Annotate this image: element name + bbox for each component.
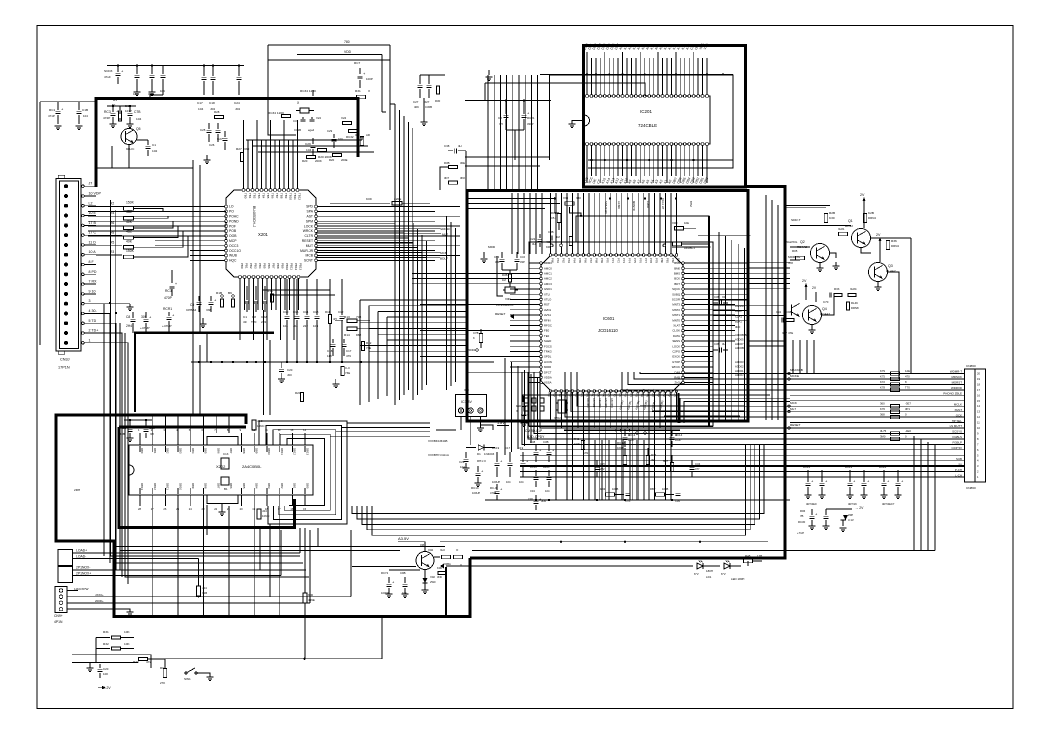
svg-text:R30: R30 xyxy=(435,99,441,103)
capacitor C1B 104 corner2 xyxy=(76,102,89,130)
resistor R2 150K xyxy=(96,201,150,211)
svg-text:A3.5V: A3.5V xyxy=(398,536,409,541)
svg-text:DB2: DB2 xyxy=(280,483,284,489)
svg-text:DB8: DB8 xyxy=(242,448,246,454)
svg-text:JCD16110: JCD16110 xyxy=(598,328,618,333)
svg-text:MCP: MCP xyxy=(229,239,237,243)
wire slant labels top IC601 xyxy=(604,198,693,214)
wire X202 bottom pin 8 xyxy=(227,483,233,511)
svg-text:2W0: 2W0 xyxy=(430,580,436,584)
svg-text:104: 104 xyxy=(160,89,165,93)
wire X201 top pin 12 xyxy=(292,140,298,200)
wire IC601 right pin 18 xyxy=(672,350,713,354)
wire bottom right horizontals inside rect xyxy=(640,406,745,416)
svg-text:104: 104 xyxy=(83,114,88,118)
svg-text:16: 16 xyxy=(977,393,980,397)
connector CN860 pin 4 xyxy=(790,386,980,392)
wire IC601 bottom pin 6 xyxy=(574,389,580,428)
svg-text:FE0: FE0 xyxy=(544,329,550,333)
power arrow 2V b xyxy=(876,233,882,262)
wire rows from QFP bottom to right xyxy=(680,398,790,423)
svg-text:DB6: DB6 xyxy=(216,448,220,454)
wire IC201 pin 31 bottom xyxy=(592,143,598,185)
svg-text:4 30-: 4 30- xyxy=(89,309,98,313)
wire X201 bottom pin 4 xyxy=(252,263,258,340)
svg-text:AVD1: AVD1 xyxy=(544,308,552,312)
preset C6B xyxy=(228,291,235,307)
svg-text:18: 18 xyxy=(977,382,980,386)
wire IC601 right pin 3 xyxy=(674,272,748,276)
svg-text:X0D: X0D xyxy=(505,297,511,301)
capacitor C17 479 xyxy=(342,339,352,358)
wire bottom mid rails xyxy=(440,499,790,543)
svg-text:4R7/4EC: 4R7/4EC xyxy=(806,502,817,506)
svg-text:TB2: TB2 xyxy=(253,193,257,199)
wire IC601 right pin 17 xyxy=(672,344,713,348)
wire IC201 pin 22 top xyxy=(676,43,682,97)
wire IC201 pin 43 bottom xyxy=(645,143,651,185)
wire X202 verticals up xyxy=(153,415,229,433)
svg-text:P77: P77 xyxy=(644,258,648,263)
capacitor C17 top xyxy=(197,66,207,111)
svg-text:LOCK: LOCK xyxy=(672,344,680,348)
capacitor C1 C8 C22 row xyxy=(243,286,268,324)
wire X201 top pin 9 xyxy=(278,140,284,199)
svg-text:2A4C0B0L: 2A4C0B0L xyxy=(242,464,262,469)
wire IC601 top pin 16 xyxy=(631,193,636,263)
op IC20 regulator IC1.8V xyxy=(456,388,487,417)
ground X202 center xyxy=(219,504,226,516)
svg-text:3E: 3E xyxy=(651,458,654,462)
capacitor RC72 1000P xyxy=(381,571,395,598)
svg-text:28: 28 xyxy=(138,507,141,511)
capacitor C29 104 reg xyxy=(459,452,470,472)
wire Q5 collector down xyxy=(112,140,148,168)
svg-text:RL49: RL49 xyxy=(851,301,858,305)
svg-text:7B: 7B xyxy=(800,514,804,518)
wire bottom long horizontals xyxy=(150,556,309,577)
svg-text:DB2: DB2 xyxy=(166,448,170,454)
wire IC601 bottom pin 21 xyxy=(656,389,662,428)
svg-text:DB1: DB1 xyxy=(153,448,157,454)
wire IC601 right pin 16 xyxy=(672,339,735,343)
svg-text:C18: C18 xyxy=(327,349,333,353)
svg-text:C25: C25 xyxy=(149,426,155,430)
wire IC601 bottom pin 16 xyxy=(629,389,635,500)
wire IC201 pin 10 top xyxy=(623,45,629,98)
svg-text:2H4: 2H4 xyxy=(126,324,132,328)
svg-text:101P: 101P xyxy=(125,109,132,113)
capacitor column C10 C16 C14 C18 xyxy=(283,279,320,362)
svg-text:TB1: TB1 xyxy=(248,193,252,199)
capacitor RC13 100UP xyxy=(471,466,484,495)
wire bundle into QFP left xyxy=(360,300,467,405)
svg-text:C27: C27 xyxy=(413,100,419,104)
resistor K00 499E mid2 xyxy=(303,528,315,659)
svg-text:R31: R31 xyxy=(355,89,361,93)
wire X202 bottom pin 6 xyxy=(202,483,208,511)
capacitor RC12 103P xyxy=(623,430,636,447)
svg-text:XTLO: XTLO xyxy=(544,298,552,302)
svg-text:J04: J04 xyxy=(293,324,298,328)
wire X201 bottom pin 8 xyxy=(270,263,276,310)
wire IC601 top pin 7 xyxy=(582,193,587,263)
wire IC201 pin 53 bottom xyxy=(689,143,695,185)
resistor R28 xyxy=(214,110,224,119)
resistor R20 200E right xyxy=(329,154,348,163)
wire X201 left pin 7 xyxy=(88,234,237,238)
connector CN301 pin 17 xyxy=(64,338,96,345)
svg-text:RST: RST xyxy=(544,303,550,307)
svg-text:L2: L2 xyxy=(89,201,93,205)
wire IC201 pin 33 bottom xyxy=(601,143,607,185)
wire IC601 top pin 12 xyxy=(609,193,614,263)
svg-text:TB10: TB10 xyxy=(289,193,293,200)
wire X202 bottom pin 5 xyxy=(189,483,195,511)
transistor Q4 RC4A2 xyxy=(803,306,831,325)
svg-text:RC9: RC9 xyxy=(120,426,127,430)
svg-text:19: 19 xyxy=(977,377,980,381)
svg-text:8 PD: 8 PD xyxy=(89,270,97,274)
wire IC201 pin 4 top xyxy=(596,43,602,98)
svg-text:R27: R27 xyxy=(236,147,242,151)
svg-text:eged: eged xyxy=(308,128,315,132)
ground CN301 row xyxy=(96,304,134,311)
svg-text:P76: P76 xyxy=(638,258,642,263)
svg-text:PB3: PB3 xyxy=(254,263,258,269)
svg-text:DB0: DB0 xyxy=(140,448,144,454)
svg-text:Q2: Q2 xyxy=(800,240,805,244)
svg-text:FGBLS: FGBLS xyxy=(952,435,962,439)
wire IC201 pin 28 top xyxy=(703,42,710,97)
svg-text:C10: C10 xyxy=(283,310,289,314)
wire IC601 bottom pin 12 xyxy=(607,389,613,428)
resistor R3 150K xyxy=(96,249,150,259)
svg-text:CN860: CN860 xyxy=(966,486,976,490)
svg-text:DB4: DB4 xyxy=(191,448,195,454)
resistor R8 4B2 xyxy=(96,230,150,240)
resistor R30 top right xyxy=(824,211,876,223)
wire X202 bottom pin 13 xyxy=(290,483,296,511)
resistor R30 C52 xyxy=(551,211,561,223)
wire IC601 bottom pin 13 xyxy=(612,388,618,500)
connector CN4 4PIN xyxy=(54,587,88,625)
svg-text:A3D07: A3D07 xyxy=(735,342,744,346)
svg-text:3KK: 3KK xyxy=(460,176,465,180)
svg-text:SCNT: SCNT xyxy=(304,259,313,263)
svg-text:DB9: DB9 xyxy=(255,448,259,454)
wire loops to rows verticals xyxy=(260,524,270,597)
op IC601 DSP JCD16110 body xyxy=(541,255,683,391)
svg-text:MDR-3G: MDR-3G xyxy=(788,255,801,259)
resistor R27 top xyxy=(236,147,249,162)
resistor R49E vertical top xyxy=(569,237,572,246)
svg-text:BU4053CH-J: BU4053CH-J xyxy=(252,206,256,227)
label 2RH xyxy=(74,488,80,492)
wire bottom bus extended left xyxy=(115,502,935,551)
wire IC601 bottom pin 11 xyxy=(601,388,607,500)
svg-text:49K: 49K xyxy=(126,239,133,243)
svg-text:PHONO ZBLE: PHONO ZBLE xyxy=(943,392,962,396)
wire X201 bottom pin 9 xyxy=(275,263,281,310)
connector CN860 pin 18 xyxy=(520,462,979,468)
svg-text:CPBB4: CPBB4 xyxy=(186,308,197,312)
op IC201 ROM 724CBLE body xyxy=(584,96,710,144)
wire IC601 top pin 14 xyxy=(620,193,625,263)
section outline board A (tuner top-left) xyxy=(96,99,358,188)
svg-text:K: K xyxy=(473,336,475,340)
svg-text:A3C0B0: A3C0B0 xyxy=(586,398,590,408)
capacitor RCR1 +47UP xyxy=(162,307,175,333)
wire IC201 pin 42 bottom xyxy=(641,143,647,185)
wire IC201 pin 50 bottom xyxy=(676,143,682,185)
resistor R1 50 and RC1 101P xyxy=(112,98,132,121)
svg-text:BZD-QPDY: BZD-QPDY xyxy=(527,435,545,439)
wire IC601 top pin 5 xyxy=(571,193,576,263)
svg-text:K72: K72 xyxy=(880,380,885,384)
svg-text:882: 882 xyxy=(356,333,361,337)
wire IC601 bottom pin 7 xyxy=(579,389,585,500)
wire IC601 right pin 12 xyxy=(672,318,735,322)
svg-text:C91: C91 xyxy=(776,310,782,314)
svg-text:368: 368 xyxy=(880,413,885,417)
svg-text:C22: C22 xyxy=(530,237,536,241)
svg-text:3N0: 3N0 xyxy=(437,575,442,579)
svg-text:73E: 73E xyxy=(345,371,350,375)
resistor R44 3E xyxy=(646,448,656,465)
svg-text:50: 50 xyxy=(112,103,116,107)
wire IC201 pin 21 top xyxy=(672,43,678,97)
wire X202 inner pin ticks xyxy=(140,446,305,494)
wire QFP right rows crossing x748 to x787 xyxy=(713,263,787,321)
svg-text:C26: C26 xyxy=(209,143,215,147)
svg-text:3H: 3H xyxy=(722,342,725,346)
svg-text:J24: J24 xyxy=(262,509,267,513)
svg-text:3B7 47E: 3B7 47E xyxy=(782,331,793,335)
wire X202 bottom pin 2 xyxy=(151,483,157,511)
wire IC601 left pin 1 xyxy=(529,261,552,265)
wire X201 left pin 11 xyxy=(190,254,238,258)
wire IC201 pin 11 top xyxy=(627,45,633,98)
wire X201 bottom pin 10 xyxy=(279,263,285,340)
svg-text:P69: P69 xyxy=(600,258,604,263)
svg-text:DB10: DB10 xyxy=(178,483,182,490)
capacitor C38 right of IC601 xyxy=(713,295,728,306)
svg-text:RESET: RESET xyxy=(495,312,506,316)
svg-text:4R7/4EC7: 4R7/4EC7 xyxy=(882,502,895,506)
wire X202 bottom drops xyxy=(153,506,280,617)
svg-text:10K: 10K xyxy=(124,642,130,646)
wire X202 bottom pin 10 xyxy=(252,483,258,511)
svg-text:R33: R33 xyxy=(834,287,840,291)
wire X202 top pin 12 xyxy=(278,428,284,455)
svg-text:CN860: CN860 xyxy=(966,364,976,368)
connector CN860 pin 20 xyxy=(790,473,979,479)
wire IC201 pin 1 top xyxy=(583,43,589,98)
wire X201 top pin 5 xyxy=(260,140,266,199)
resistor R20 200K lower xyxy=(302,155,322,163)
wire IC201 pin 40 bottom xyxy=(632,143,638,185)
svg-text:HP SEL: HP SEL xyxy=(952,419,963,423)
svg-text:PB10: PB10 xyxy=(285,263,289,270)
capacitor trio corner cluster xyxy=(133,66,166,96)
svg-text:DB12: DB12 xyxy=(293,448,297,455)
svg-text:C14: C14 xyxy=(303,310,309,314)
svg-text:DB11: DB11 xyxy=(280,448,284,455)
svg-text:ML7: ML7 xyxy=(790,407,796,411)
wire verticals inside bold right xyxy=(719,232,745,420)
transistor Q6 lower 3B7 xyxy=(792,304,800,317)
wire nested loops right of X202 xyxy=(259,421,347,524)
svg-text:DB9: DB9 xyxy=(191,483,195,489)
capacitor C2 3H mid xyxy=(498,100,509,130)
wire IC201 pin 48 bottom xyxy=(667,143,673,185)
thin module box around IC201 xyxy=(550,75,734,168)
svg-text:X: X xyxy=(460,563,462,567)
label 1.8V xyxy=(497,421,509,426)
svg-text:SPM: SPM xyxy=(306,219,313,223)
wire IC601 left pin 16 xyxy=(510,339,551,343)
svg-text:R20: R20 xyxy=(133,660,139,664)
svg-text:K79: K79 xyxy=(880,369,885,373)
wire transistor to connector drops xyxy=(793,340,964,379)
resistor C7B left of IC601 xyxy=(473,329,483,348)
svg-text:DB4: DB4 xyxy=(255,483,259,489)
svg-text:OCC3: OCC3 xyxy=(229,244,238,248)
wire X201 right pin 3 xyxy=(306,215,460,219)
svg-text:RFGC: RFGC xyxy=(544,324,552,328)
connector CN860 pin 7 xyxy=(790,402,980,408)
svg-text:3D7: 3D7 xyxy=(444,176,450,180)
wire VDD VSS top runs xyxy=(268,40,390,112)
svg-text:LOCK: LOCK xyxy=(304,224,314,228)
wire X202 bottom pin 1 xyxy=(138,483,144,511)
wire X201 left pin 12 xyxy=(190,259,237,263)
svg-text:C17: C17 xyxy=(505,446,511,450)
capacitor C98 104 btm xyxy=(400,571,409,598)
wire IC201 pin 24 top xyxy=(685,43,691,97)
svg-text:XMLT: XMLT xyxy=(954,408,962,412)
svg-text:SDR-T: SDR-T xyxy=(791,218,801,222)
capacitor C12 xyxy=(338,279,345,362)
svg-text:BM1: BM1 xyxy=(674,261,680,265)
wire IC601 top pin 19 xyxy=(648,193,653,263)
connector CN301 pin 15 xyxy=(64,319,97,326)
svg-text:10K: 10K xyxy=(133,92,138,96)
svg-text:MDD: MDD xyxy=(488,245,496,249)
connector CN860 pin 5 xyxy=(790,392,980,398)
svg-text:222: 222 xyxy=(600,467,605,471)
svg-text:7 RX: 7 RX xyxy=(89,280,98,284)
svg-text:330: 330 xyxy=(244,147,249,151)
ground under X201 cluster xyxy=(200,318,207,328)
svg-text:330B: 330B xyxy=(118,432,125,436)
wire IC601 right pin 24 xyxy=(675,381,713,385)
wire X202 bottom pin 7 xyxy=(214,483,220,511)
resistor RC32 1K xyxy=(341,116,364,139)
wire IC601 right pin 22 xyxy=(674,370,713,374)
wire rail mid y362 xyxy=(191,361,494,363)
svg-text:K09: K09 xyxy=(366,197,372,201)
svg-text:PB12: PB12 xyxy=(294,263,298,270)
svg-text:A3D01: A3D01 xyxy=(735,369,744,373)
svg-text:R36: R36 xyxy=(891,239,897,243)
wire dense verticals below QFP long xyxy=(595,440,673,501)
wire X202 top pin 2 xyxy=(151,428,157,454)
svg-text:A3D02: A3D02 xyxy=(735,364,744,368)
resistor 3L0 O bottom xyxy=(434,548,463,567)
resistor row R79 group xyxy=(880,369,910,392)
capacitor RC9 330B left of X202 xyxy=(118,419,155,442)
svg-text:3L81: 3L81 xyxy=(838,227,845,231)
svg-text:C5.2: C5.2 xyxy=(551,216,557,220)
wire IC601 right pin 2 xyxy=(674,266,748,270)
svg-text:C1: C1 xyxy=(152,143,156,147)
svg-text:SENS: SENS xyxy=(672,339,680,343)
svg-text:5 TD: 5 TD xyxy=(89,319,97,323)
wire IC601 left pin 5 xyxy=(467,282,552,286)
svg-text:3M0: 3M0 xyxy=(880,434,886,438)
svg-text:330: 330 xyxy=(576,196,581,200)
capacitor C32 3H top xyxy=(530,234,543,247)
wire X201 bottom pin 2 xyxy=(243,263,249,310)
wire IC201 pin 52 bottom xyxy=(685,143,691,185)
svg-text:R31: R31 xyxy=(103,630,109,634)
svg-text:CLTR: CLTR xyxy=(304,234,313,238)
power arrow 2V d xyxy=(812,286,817,302)
svg-text:DB6: DB6 xyxy=(229,483,233,489)
svg-text:2P1NOX-: 2P1NOX- xyxy=(76,566,90,570)
wire IC601 right pin 23 xyxy=(674,376,713,380)
diode ZD2 bottom xyxy=(422,570,437,594)
svg-text:6°V: 6°V xyxy=(721,572,726,576)
wire IC201 pin 39 bottom xyxy=(627,143,633,185)
wire X202 top pin 6 xyxy=(202,428,208,454)
wire IC601 top pin 8 xyxy=(588,193,593,263)
svg-text:100P: 100P xyxy=(366,77,373,81)
svg-text:200K: 200K xyxy=(315,159,322,163)
svg-text:SUB: SUB xyxy=(956,457,962,461)
svg-text:R1: R1 xyxy=(113,98,117,102)
wire X201 bottom rails right xyxy=(262,290,335,295)
resistor R44 BC1 xyxy=(673,242,711,250)
wire IC201 pin 41 bottom xyxy=(636,143,642,185)
resistor R33 R34 middle xyxy=(823,287,857,304)
wire IC601 top pin 18 xyxy=(642,193,647,263)
svg-text:C7N: C7N xyxy=(625,499,630,503)
ground SW1 xyxy=(197,673,214,681)
connector CN301 pin 6 xyxy=(64,231,96,238)
svg-text:RCR1: RCR1 xyxy=(163,307,172,311)
svg-text:RFIN: RFIN xyxy=(544,318,551,322)
svg-text:DATA: DATA xyxy=(673,334,680,338)
svg-text:3P1: 3P1 xyxy=(905,407,910,411)
wire IC201 top rail xyxy=(550,73,734,75)
connector CN301 body xyxy=(56,175,81,369)
svg-text:WUB: WUB xyxy=(229,254,238,258)
ground IC201 xyxy=(569,121,585,128)
transistor Q2 RD4A2 xyxy=(797,240,830,263)
svg-text:C9B: C9B xyxy=(400,571,406,575)
thin module box around IC601 outer xyxy=(529,242,713,426)
svg-text:AR: AR xyxy=(366,133,370,137)
resistor R38 1M xyxy=(502,273,512,282)
svg-text:POND: POND xyxy=(229,219,239,223)
wire IC201 pin 38 bottom xyxy=(623,143,629,185)
svg-text:Z0P: Z0P xyxy=(848,513,853,517)
resistor R37 100E2 xyxy=(663,455,674,472)
wire X201 right pin 6 xyxy=(303,229,435,233)
